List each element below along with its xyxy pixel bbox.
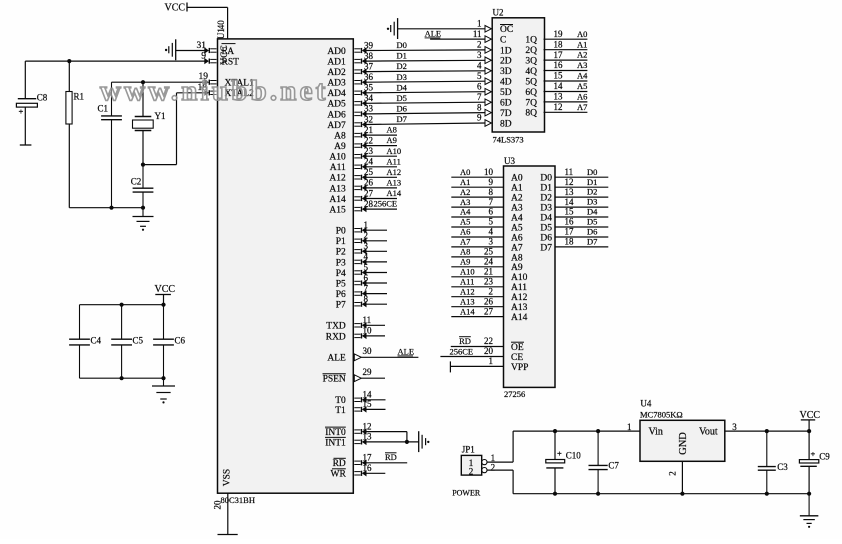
svg-text:A3: A3 xyxy=(460,197,470,207)
svg-text:3: 3 xyxy=(364,241,369,251)
svg-text:5: 5 xyxy=(477,71,482,81)
svg-text:35: 35 xyxy=(364,83,374,93)
wire P3 stub (U1 pin 4) xyxy=(354,259,387,265)
svg-text:C10: C10 xyxy=(566,451,582,461)
svg-text:21: 21 xyxy=(484,267,493,277)
U3 pin name OE (overlined) xyxy=(511,342,524,353)
svg-text:37: 37 xyxy=(364,61,374,71)
svg-text:9: 9 xyxy=(201,51,206,61)
svg-text:2: 2 xyxy=(469,467,474,477)
capacitor C7 xyxy=(597,431,599,465)
svg-text:D5: D5 xyxy=(540,223,552,233)
svg-text:27: 27 xyxy=(364,188,374,198)
svg-text:+: + xyxy=(811,449,816,459)
svg-text:A9: A9 xyxy=(460,257,470,267)
svg-text:40: 40 xyxy=(216,20,226,30)
svg-text:VCC: VCC xyxy=(155,284,176,295)
svg-text:A8: A8 xyxy=(387,125,397,135)
wire U3 D4 data stub (pin 15) xyxy=(555,216,608,218)
svg-text:D6: D6 xyxy=(397,104,407,114)
wire U3 D7 data stub (pin 18) xyxy=(555,246,608,248)
svg-text:A12: A12 xyxy=(511,293,528,303)
svg-text:C6: C6 xyxy=(175,336,186,346)
svg-text:4Q: 4Q xyxy=(525,67,537,77)
svg-text:RD: RD xyxy=(385,452,397,462)
svg-text:D3: D3 xyxy=(397,72,407,82)
svg-text:8: 8 xyxy=(489,187,494,197)
svg-text:A10: A10 xyxy=(460,267,475,277)
net label ALE (underlined) xyxy=(398,347,415,357)
svg-text:D6: D6 xyxy=(587,227,597,237)
svg-text:D4: D4 xyxy=(587,207,598,217)
wire U2 5Q output (pin 15) / net A4 xyxy=(544,80,588,82)
svg-text:17: 17 xyxy=(554,50,564,60)
svg-text:36: 36 xyxy=(364,72,374,82)
wire AD2/D2 bus (U1 pin 37 to U2 3D) xyxy=(354,68,485,74)
wire U3 OE pin 22 / net RD xyxy=(451,346,504,348)
svg-text:D7: D7 xyxy=(540,243,552,253)
svg-text:6: 6 xyxy=(364,273,369,283)
svg-text:A2: A2 xyxy=(460,187,470,197)
svg-text:23: 23 xyxy=(364,146,374,156)
svg-text:5Q: 5Q xyxy=(525,77,537,87)
svg-text:D2: D2 xyxy=(397,61,407,71)
wire A14 stub (U1 pin 27) xyxy=(354,195,397,201)
wire INT0 (U1 pin 12) to ground xyxy=(354,428,407,442)
svg-text:15: 15 xyxy=(363,399,373,409)
wire A12 stub (U1 pin 25) xyxy=(354,174,397,180)
svg-text:A5: A5 xyxy=(460,217,470,227)
svg-text:A14: A14 xyxy=(511,313,528,323)
svg-text:A11: A11 xyxy=(387,156,401,166)
svg-text:A15: A15 xyxy=(329,206,346,216)
svg-text:12: 12 xyxy=(554,102,563,112)
svg-text:A10: A10 xyxy=(329,153,346,163)
svg-text:13: 13 xyxy=(565,187,575,197)
svg-text:1: 1 xyxy=(627,422,632,432)
svg-text:A0: A0 xyxy=(460,167,470,177)
svg-text:32: 32 xyxy=(364,114,373,124)
svg-text:T0: T0 xyxy=(335,396,346,406)
wire ALE stub (U1 pin 30) xyxy=(354,354,418,361)
wire AD7/D7 bus (U1 pin 32 to U2 8D) xyxy=(354,121,485,127)
svg-text:28: 28 xyxy=(364,199,374,209)
svg-text:U4: U4 xyxy=(640,399,651,409)
svg-text:15: 15 xyxy=(565,207,575,217)
svg-text:Vin: Vin xyxy=(649,427,663,438)
wire U3 A6 address stub (pin 4) xyxy=(451,236,503,238)
svg-text:D1: D1 xyxy=(540,184,552,194)
wire PSEN stub (U1 pin 29) xyxy=(354,375,385,382)
svg-text:14: 14 xyxy=(363,390,373,400)
wire INT1 (U1 pin 13) to ground xyxy=(354,439,418,445)
svg-text:C8: C8 xyxy=(37,93,48,103)
svg-text:17: 17 xyxy=(363,453,373,463)
svg-text:7: 7 xyxy=(489,197,494,207)
svg-text:80C31BH: 80C31BH xyxy=(221,495,255,505)
wire AD3/D3 bus (U1 pin 36 to U2 4D) xyxy=(354,79,485,85)
svg-text:A8: A8 xyxy=(334,132,346,142)
svg-text:A6: A6 xyxy=(460,227,470,237)
svg-text:A0: A0 xyxy=(577,29,587,39)
svg-text:P7: P7 xyxy=(336,301,346,311)
svg-text:U1: U1 xyxy=(216,28,226,39)
svg-text:A13: A13 xyxy=(387,178,402,188)
wire AD4/D4 bus (U1 pin 35 to U2 5D) xyxy=(354,90,485,96)
svg-text:A1: A1 xyxy=(460,177,470,187)
wire AD5/D5 bus (U1 pin 34 to U2 6D) xyxy=(354,100,485,106)
svg-text:4: 4 xyxy=(477,61,482,71)
U2 pin 6 (5D) symbol xyxy=(485,88,491,95)
wire U3 A7 address stub (pin 3) xyxy=(451,246,503,248)
svg-text:D1: D1 xyxy=(587,177,597,187)
capacitor C1 xyxy=(111,82,113,116)
wire P7 stub (U1 pin 8) xyxy=(354,301,387,307)
op-amp U1 80C31BH body xyxy=(218,39,354,493)
wire AD0/D0 bus (U1 pin 39 to U2 1D) xyxy=(354,47,485,53)
wire T0 stub (U1 pin 14) xyxy=(354,397,385,403)
svg-text:A11: A11 xyxy=(460,277,474,287)
svg-text:A0: A0 xyxy=(511,174,523,184)
wire U3 A14 address stub (pin 27) xyxy=(451,316,503,318)
wire Vout rail (node 3) xyxy=(725,429,811,433)
svg-text:AD3: AD3 xyxy=(327,79,346,89)
wire U2 OC pin 1 xyxy=(398,26,492,33)
svg-text:7: 7 xyxy=(364,283,369,293)
svg-text:10: 10 xyxy=(363,326,373,336)
wire U3 A3 address stub (pin 7) xyxy=(451,206,503,208)
svg-text:A1: A1 xyxy=(577,39,587,49)
U1 pin name INT1 (overlined) xyxy=(325,437,346,448)
svg-text:A2: A2 xyxy=(577,50,587,60)
svg-text:4D: 4D xyxy=(500,78,512,88)
svg-text:A4: A4 xyxy=(460,207,471,217)
wire T1 stub (U1 pin 15) xyxy=(354,406,385,412)
svg-text:8: 8 xyxy=(477,102,482,112)
svg-text:1: 1 xyxy=(489,356,494,366)
svg-text:22: 22 xyxy=(364,135,373,145)
svg-text:256CE: 256CE xyxy=(450,346,474,356)
wire A10 stub (U1 pin 23) xyxy=(354,153,397,159)
svg-text:25: 25 xyxy=(484,247,494,257)
wire JP1 pin2 to ground rail xyxy=(487,470,513,494)
svg-text:VCC: VCC xyxy=(800,410,821,421)
wire U3 CE pin 20 / net 256CE xyxy=(440,356,503,358)
svg-text:D5: D5 xyxy=(587,217,597,227)
wire U2 3Q output (pin 17) / net A2 xyxy=(544,59,588,61)
svg-text:A6: A6 xyxy=(577,92,587,102)
svg-text:A2: A2 xyxy=(511,194,523,204)
wire U3 D0 data stub (pin 11) xyxy=(555,176,608,178)
wire JP1 pin1 to Vin rail xyxy=(487,431,513,462)
svg-text:38: 38 xyxy=(364,51,374,61)
svg-text:25: 25 xyxy=(364,167,374,177)
wire ALE to U2 C pin 11 xyxy=(430,36,491,43)
svg-text:27256: 27256 xyxy=(504,389,525,399)
svg-text:A14: A14 xyxy=(460,306,475,316)
wire U3 VPP pin 1 xyxy=(450,361,503,372)
svg-text:14: 14 xyxy=(554,81,564,91)
svg-text:R1: R1 xyxy=(74,92,85,102)
svg-text:D0: D0 xyxy=(587,167,597,177)
svg-text:A5: A5 xyxy=(511,223,523,233)
svg-text:PSEN: PSEN xyxy=(323,375,346,385)
svg-text:3: 3 xyxy=(477,50,482,60)
svg-text:29: 29 xyxy=(363,367,373,377)
svg-text:6Q: 6Q xyxy=(525,88,537,98)
svg-text:D7: D7 xyxy=(397,114,407,124)
svg-text:17: 17 xyxy=(565,227,575,237)
svg-text:P4: P4 xyxy=(336,269,346,279)
wire 256CE stub (U1 pin 28) xyxy=(354,206,397,212)
svg-text:10: 10 xyxy=(484,167,494,177)
svg-text:D6: D6 xyxy=(540,233,552,243)
wire U3 A1 address stub (pin 9) xyxy=(451,186,503,188)
ground symbol at INT pins xyxy=(418,431,420,452)
svg-text:WR: WR xyxy=(330,470,346,480)
svg-text:VCC: VCC xyxy=(165,3,186,14)
svg-text:31: 31 xyxy=(197,41,207,51)
svg-text:D0: D0 xyxy=(540,174,552,184)
wire U2 4Q output (pin 16) / net A3 xyxy=(544,70,588,72)
svg-text:2: 2 xyxy=(477,40,482,50)
crystal Y1 xyxy=(133,82,154,164)
svg-text:www.niubb.net: www.niubb.net xyxy=(100,75,329,107)
wire U2 1Q output (pin 19) / net A0 xyxy=(544,38,588,40)
svg-text:AD0: AD0 xyxy=(327,47,346,57)
capacitor C8 (polarized) xyxy=(16,99,37,145)
svg-text:RST: RST xyxy=(222,58,240,68)
svg-text:A7: A7 xyxy=(460,237,470,247)
wire U3 A4 address stub (pin 6) xyxy=(451,216,503,218)
svg-text:30: 30 xyxy=(363,346,373,356)
wire VCC to U1 pin40 xyxy=(187,7,228,39)
svg-text:P5: P5 xyxy=(336,279,346,289)
svg-text:1D: 1D xyxy=(500,46,512,56)
wire U3 A0 address stub (pin 10) xyxy=(451,176,503,178)
svg-text:12: 12 xyxy=(565,177,574,187)
svg-text:8Q: 8Q xyxy=(525,109,537,119)
svg-text:A13: A13 xyxy=(511,303,528,313)
svg-text:AD1: AD1 xyxy=(327,58,346,68)
svg-text:A12: A12 xyxy=(387,167,402,177)
wire WR stub (U1 pin 16) xyxy=(354,470,385,476)
svg-text:20: 20 xyxy=(484,346,494,356)
svg-text:POWER: POWER xyxy=(452,488,481,497)
svg-text:AD2: AD2 xyxy=(327,68,346,78)
svg-text:1: 1 xyxy=(477,19,482,29)
U2 pin 7 (6D) symbol xyxy=(485,99,491,106)
svg-text:A10: A10 xyxy=(511,273,528,283)
U2 pin 5 (4D) symbol xyxy=(485,78,491,85)
svg-text:AD5: AD5 xyxy=(327,100,346,110)
svg-text:39: 39 xyxy=(364,40,374,50)
svg-text:D4: D4 xyxy=(397,82,408,92)
svg-text:TXD: TXD xyxy=(326,322,346,332)
wire P2 stub (U1 pin 3) xyxy=(354,248,387,254)
wire U2 6Q output (pin 14) / net A5 xyxy=(544,91,588,93)
svg-text:15: 15 xyxy=(554,71,564,81)
svg-text:OE: OE xyxy=(511,343,524,353)
wire A9 stub (U1 pin 22) xyxy=(354,142,397,148)
power VCC (output) xyxy=(800,410,821,431)
wire RST net to C8 xyxy=(24,61,26,99)
wire decoupling top rail xyxy=(80,303,166,307)
wire U3 A9 address stub (pin 24) xyxy=(451,266,503,268)
capacitor C4 xyxy=(79,305,81,340)
capacitor C6 xyxy=(163,305,165,340)
svg-text:P1: P1 xyxy=(336,237,346,247)
wire U3 D1 data stub (pin 12) xyxy=(555,186,608,188)
resistor R1 xyxy=(66,61,72,208)
wire U3 A11 address stub (pin 23) xyxy=(451,286,503,288)
svg-text:7D: 7D xyxy=(500,109,512,119)
svg-text:CE: CE xyxy=(511,353,523,363)
svg-text:A7: A7 xyxy=(511,243,523,253)
U2 pin 8 (7D) symbol xyxy=(485,109,491,116)
wire U3 A5 address stub (pin 5) xyxy=(451,226,503,228)
svg-text:AD4: AD4 xyxy=(327,89,346,99)
ground (power supply) xyxy=(808,494,810,516)
svg-text:A10: A10 xyxy=(387,146,402,156)
svg-text:A9: A9 xyxy=(387,135,397,145)
wire EA pin 31 xyxy=(176,47,217,53)
wire U1 pin 20 VSS to ground xyxy=(218,493,238,534)
wire A8 stub (U1 pin 21) xyxy=(354,132,397,138)
svg-text:20: 20 xyxy=(213,500,223,510)
wire U3 D5 data stub (pin 16) xyxy=(555,226,608,228)
svg-text:5D: 5D xyxy=(500,88,512,98)
svg-text:5: 5 xyxy=(489,217,494,227)
svg-text:3: 3 xyxy=(489,237,494,247)
svg-text:6: 6 xyxy=(489,207,494,217)
svg-text:11: 11 xyxy=(565,167,574,177)
svg-text:AD7: AD7 xyxy=(327,121,346,131)
svg-text:C3: C3 xyxy=(777,462,788,472)
U2 pin 3 (2D) symbol xyxy=(485,57,491,64)
wire RXD stub (U1 pin 10) xyxy=(354,333,385,339)
wire AD6/D6 bus (U1 pin 33 to U2 7D) xyxy=(354,111,485,117)
svg-text:C: C xyxy=(500,36,506,46)
wire Vin rail (node 1) xyxy=(513,429,640,433)
svg-text:RD: RD xyxy=(333,459,346,469)
svg-text:RD: RD xyxy=(459,336,471,346)
svg-text:3: 3 xyxy=(732,422,737,432)
svg-text:3D: 3D xyxy=(500,67,512,77)
svg-text:A1: A1 xyxy=(511,184,523,194)
svg-text:6: 6 xyxy=(477,81,482,91)
svg-text:P3: P3 xyxy=(336,258,346,268)
capacitor C5 xyxy=(121,305,123,340)
wire AD1/D1 bus (U1 pin 38 to U2 2D) xyxy=(354,58,485,64)
svg-text:P2: P2 xyxy=(336,248,346,258)
svg-text:74LS373: 74LS373 xyxy=(493,135,524,145)
svg-text:MC7805KΩ: MC7805KΩ xyxy=(640,410,683,420)
svg-text:12: 12 xyxy=(363,421,372,431)
svg-text:INT1: INT1 xyxy=(325,438,346,448)
capacitor C10 (polarized) xyxy=(546,431,565,494)
wire P1 stub (U1 pin 2) xyxy=(354,238,387,244)
wire oscillator ground rail xyxy=(69,206,145,210)
svg-text:ALE: ALE xyxy=(327,354,346,364)
svg-text:D3: D3 xyxy=(540,204,552,214)
svg-text:A11: A11 xyxy=(511,283,527,293)
svg-text:26: 26 xyxy=(364,178,374,188)
U1 pin name INT0 (overlined) xyxy=(325,427,346,438)
svg-text:A12: A12 xyxy=(460,286,475,296)
svg-text:D3: D3 xyxy=(587,197,597,207)
svg-text:A8: A8 xyxy=(511,253,523,263)
svg-text:INT0: INT0 xyxy=(325,428,346,438)
svg-text:A3: A3 xyxy=(511,204,523,214)
svg-text:P6: P6 xyxy=(336,290,346,300)
svg-text:19: 19 xyxy=(554,29,564,39)
svg-text:16: 16 xyxy=(565,217,575,227)
wire TXD stub (U1 pin 11) xyxy=(354,322,385,328)
wire XTAL2 pin 18 xyxy=(141,90,217,167)
capacitor C9 (polarized) xyxy=(799,431,818,494)
U1 pin name PSEN (overlined) xyxy=(323,374,346,385)
regulator U4 MC7805 body xyxy=(640,420,725,461)
svg-text:16: 16 xyxy=(363,463,373,473)
svg-text:C7: C7 xyxy=(608,461,619,471)
wire P6 stub (U1 pin 7) xyxy=(354,290,387,296)
U2 pin name OC (overlined) xyxy=(500,25,513,36)
svg-text:A14: A14 xyxy=(329,195,346,205)
svg-text:7: 7 xyxy=(477,92,482,102)
svg-text:4: 4 xyxy=(364,252,369,262)
svg-text:A9: A9 xyxy=(334,142,346,152)
svg-text:A9: A9 xyxy=(511,263,523,273)
svg-text:Vout: Vout xyxy=(699,427,718,438)
U2 pin 9 (8D) symbol xyxy=(485,120,491,127)
wire A11 stub (U1 pin 24) xyxy=(354,164,397,170)
svg-text:P0: P0 xyxy=(336,227,346,237)
svg-text:D0: D0 xyxy=(397,40,407,50)
svg-text:6D: 6D xyxy=(500,99,512,109)
op-amp U2 74LS373 body xyxy=(492,18,544,132)
svg-text:18: 18 xyxy=(554,39,564,49)
wire XTAL1 pin 19 xyxy=(112,79,217,85)
svg-text:A7: A7 xyxy=(577,102,587,112)
svg-text:2: 2 xyxy=(364,231,369,241)
svg-text:9: 9 xyxy=(489,177,494,187)
svg-text:13: 13 xyxy=(554,92,564,102)
capacitor C3 xyxy=(766,431,768,467)
net label RD (overlined) xyxy=(459,336,471,346)
svg-text:D7: D7 xyxy=(587,237,597,247)
svg-text:GND: GND xyxy=(678,432,689,455)
U2 pin 2 (1D) symbol xyxy=(485,47,491,54)
U2 pin 4 (3D) symbol xyxy=(485,68,491,75)
svg-text:A3: A3 xyxy=(577,60,587,70)
U1 pin name EA (overlined) xyxy=(222,44,236,57)
svg-text:21: 21 xyxy=(364,125,373,135)
svg-text:2: 2 xyxy=(491,462,496,472)
ground symbol at U2 OC pin xyxy=(397,18,399,39)
svg-text:26: 26 xyxy=(484,296,494,306)
svg-text:2: 2 xyxy=(668,471,678,476)
svg-text:Y1: Y1 xyxy=(155,111,166,121)
svg-text:A12: A12 xyxy=(329,174,346,184)
svg-text:A5: A5 xyxy=(577,81,587,91)
svg-text:A6: A6 xyxy=(511,233,523,243)
svg-text:D2: D2 xyxy=(587,187,597,197)
svg-text:A8: A8 xyxy=(460,247,470,257)
wire P0 stub (U1 pin 1) xyxy=(354,227,387,233)
svg-text:24: 24 xyxy=(484,257,494,267)
svg-text:2: 2 xyxy=(489,286,494,296)
